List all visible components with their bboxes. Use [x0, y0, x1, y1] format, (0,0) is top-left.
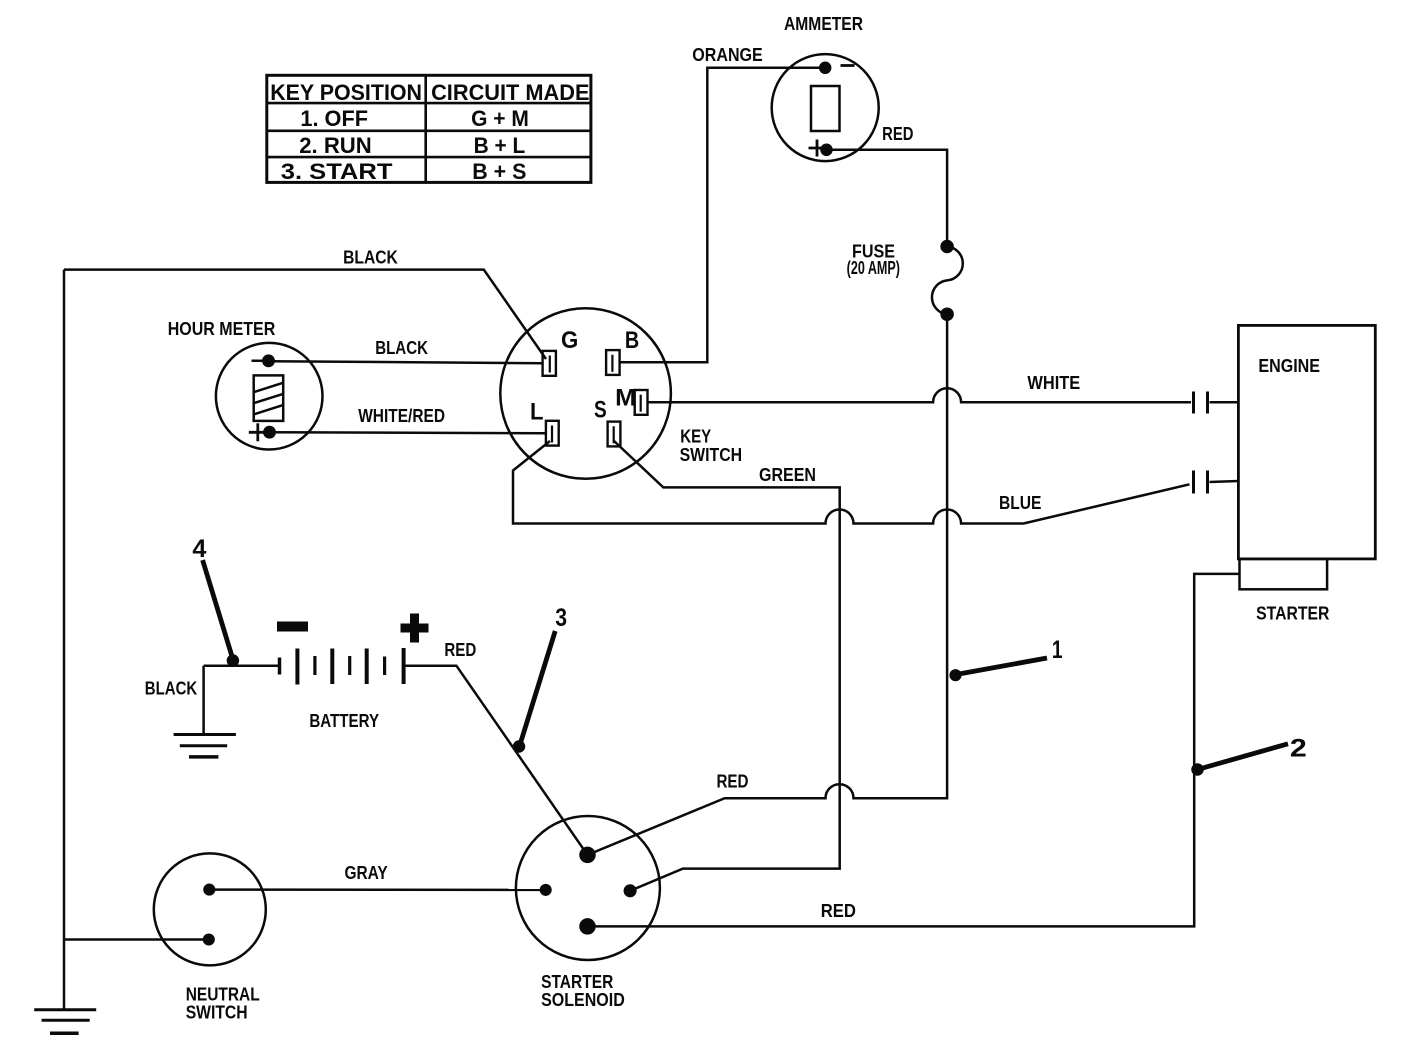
- callout 4: [203, 560, 238, 665]
- svg-text:KEY POSITION: KEY POSITION: [270, 80, 422, 105]
- label FUSE (20 AMP): [847, 242, 900, 279]
- svg-text:WHITE/RED: WHITE/RED: [358, 406, 445, 426]
- svg-text:G: G: [561, 327, 578, 354]
- svg-text:B + L: B + L: [474, 133, 526, 158]
- starter box: [1240, 559, 1328, 589]
- ground (bottom left): [34, 1010, 96, 1034]
- callout 3: [514, 631, 555, 752]
- wire blue connector to engine: [1210, 481, 1239, 482]
- table text: [270, 80, 589, 184]
- wire GRAY: neutral switch to solenoid: [209, 888, 545, 891]
- svg-text:1. OFF: 1. OFF: [300, 106, 368, 131]
- svg-text:SWITCH: SWITCH: [680, 445, 743, 465]
- svg-text:NEUTRAL: NEUTRAL: [186, 985, 260, 1005]
- svg-text:M: M: [615, 385, 636, 412]
- svg-text:CIRCUIT MADE: CIRCUIT MADE: [431, 80, 589, 105]
- wire: left vertical black to ground: [63, 270, 66, 1010]
- svg-text:G + M: G + M: [471, 106, 529, 131]
- wire ORANGE: ammeter to key switch B: [620, 68, 825, 362]
- svg-text:GRAY: GRAY: [344, 863, 387, 883]
- svg-text:ORANGE: ORANGE: [692, 45, 763, 65]
- svg-text:BLACK: BLACK: [145, 679, 197, 699]
- svg-text:L: L: [530, 399, 544, 426]
- svg-text:STARTER: STARTER: [541, 972, 613, 992]
- svg-text:SWITCH: SWITCH: [186, 1003, 248, 1023]
- svg-text:HOUR METER: HOUR METER: [168, 319, 276, 339]
- svg-text:2: 2: [1290, 735, 1307, 763]
- svg-text:AMMETER: AMMETER: [784, 14, 863, 34]
- svg-text:BLACK: BLACK: [375, 338, 428, 358]
- svg-text:SOLENOID: SOLENOID: [541, 990, 625, 1010]
- wire WHITE/RED: hour meter to key switch L: [270, 432, 546, 433]
- battery plus sign: [401, 614, 429, 643]
- svg-text:3: 3: [555, 604, 567, 632]
- label KEY SWITCH: [680, 427, 743, 466]
- svg-text:GREEN: GREEN: [759, 465, 816, 485]
- callout 1: [951, 658, 1047, 680]
- engine box: [1238, 325, 1375, 559]
- svg-text:RED: RED: [716, 772, 748, 792]
- wire RED: battery positive to solenoid top: [404, 666, 588, 855]
- svg-text:STARTER: STARTER: [1256, 604, 1329, 624]
- starter solenoid K1: [516, 816, 660, 960]
- wire WHITE: key switch M to engine: [648, 388, 1192, 402]
- key switch terminal letters: [530, 327, 639, 426]
- wire GREEN: key switch S to starter solenoid: [614, 441, 840, 891]
- svg-text:B: B: [625, 327, 639, 354]
- battery minus sign: [277, 622, 308, 632]
- key position table: [267, 75, 591, 182]
- wire white connector to engine: [1210, 401, 1239, 404]
- ground (battery): [174, 735, 236, 757]
- svg-text:B + S: B + S: [472, 159, 526, 184]
- hour meter M1: [216, 343, 323, 450]
- connector (blue wire): [1194, 471, 1208, 494]
- key switch S1: [500, 308, 671, 479]
- label NEUTRAL SWITCH: [186, 985, 260, 1023]
- svg-text:2. RUN: 2. RUN: [299, 133, 372, 158]
- svg-text:RED: RED: [882, 124, 913, 144]
- wire RED: fuse down to starter solenoid top: [588, 314, 948, 855]
- svg-text:RED: RED: [444, 640, 476, 660]
- label STARTER SOLENOID: [541, 972, 625, 1010]
- svg-text:RED: RED: [821, 901, 856, 921]
- neutral switch S2: [154, 853, 266, 965]
- svg-text:ENGINE: ENGINE: [1258, 356, 1320, 376]
- wire: neutral switch to left ground rail: [64, 938, 209, 941]
- svg-text:1: 1: [1052, 636, 1063, 664]
- svg-text:(20 AMP): (20 AMP): [847, 258, 900, 278]
- svg-text:BATTERY: BATTERY: [309, 711, 379, 731]
- fuse F1 (20 AMP): [932, 241, 963, 320]
- wire BLUE: key switch L to engine: [513, 441, 1190, 524]
- svg-text:KEY: KEY: [680, 427, 711, 447]
- ammeter A1: [772, 54, 879, 161]
- battery BT1: [204, 648, 404, 685]
- wire BLACK: battery negative to ground: [202, 666, 205, 735]
- wire BLACK: hour meter to key switch G: [269, 361, 543, 363]
- svg-text:BLACK: BLACK: [343, 248, 398, 268]
- svg-text:4: 4: [192, 535, 206, 563]
- svg-text:BLUE: BLUE: [999, 493, 1042, 513]
- svg-text:S: S: [594, 397, 607, 424]
- wire RED: ammeter to fuse: [827, 150, 948, 247]
- connector (white wire): [1194, 392, 1208, 414]
- wire RED: starter to solenoid bottom: [588, 574, 1240, 927]
- svg-text:WHITE: WHITE: [1027, 373, 1080, 393]
- svg-text:3. START: 3. START: [281, 159, 393, 184]
- wire BLACK: left frame to key switch G: [64, 270, 546, 359]
- callout 2: [1193, 744, 1289, 775]
